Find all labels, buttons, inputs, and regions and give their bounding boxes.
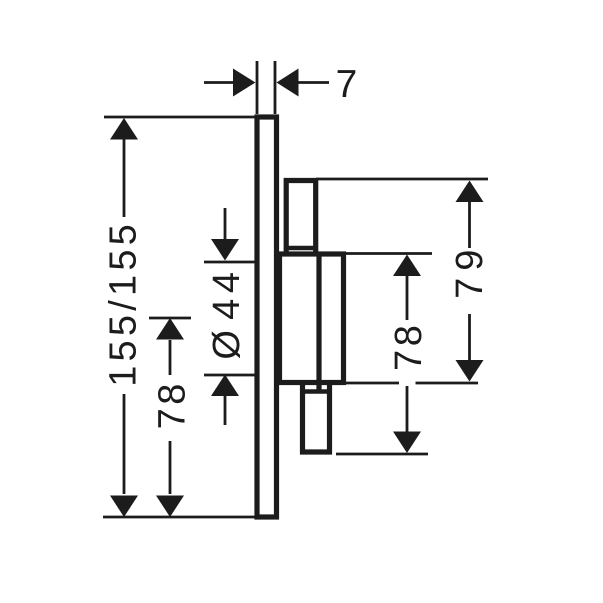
dim d44 down arrowhead (211, 239, 239, 261)
dim d44 upper shaft (224, 208, 227, 239)
svg-text:79: 79 (449, 243, 491, 299)
dimension 78 left (151, 318, 193, 517)
dim 78L upper shaft (169, 340, 172, 375)
dim 78R top arrowhead (393, 255, 421, 277)
extension line 78-right top (346, 252, 432, 255)
dim d44 up arrowhead (211, 375, 239, 397)
svg-text:78: 78 (151, 380, 193, 429)
extension line 79 top (316, 178, 488, 181)
dim 7 left arrowhead (233, 69, 256, 97)
dim 155 lower shaft (123, 394, 126, 494)
dim 155 bottom arrowhead (110, 496, 138, 518)
dim 79 upper shaft (468, 202, 471, 249)
dimension 7 (plate thickness) (204, 63, 357, 106)
dim 7 right shaft (298, 81, 329, 84)
svg-text:44: 44 (206, 266, 248, 319)
dim 78L bottom arrowhead (156, 496, 184, 518)
wall plate outline (257, 117, 277, 517)
extension line 79 bottom (two segments) (344, 382, 399, 385)
dimension 155/155 (plate height) (103, 118, 145, 517)
extension line 78-right bottom (336, 453, 428, 456)
dimension d44 (206, 208, 248, 425)
extension line 78-left top (149, 317, 191, 320)
extension line d44 bottom (204, 374, 258, 377)
dim 79 bottom arrowhead (456, 360, 484, 382)
valve middle body (280, 254, 344, 383)
dim 79 lower shaft (468, 314, 471, 360)
bottom spigot step line (303, 389, 330, 393)
extension line 7 left vertical (256, 61, 259, 114)
dimension 79 right (449, 181, 491, 382)
dim 78L top arrowhead (156, 318, 184, 340)
valve bottom spigot (303, 383, 330, 453)
valve top spigot (286, 181, 316, 255)
dim 155 top arrowhead (110, 118, 138, 140)
svg-text:7: 7 (336, 63, 358, 106)
dim 79 top arrowhead (456, 181, 484, 203)
svg-text:155/155: 155/155 (103, 220, 145, 387)
dim 155 upper shaft (123, 139, 126, 217)
svg-text:78: 78 (388, 322, 430, 371)
dim 78L lower shaft (169, 441, 172, 494)
dim 7 right arrowhead (277, 69, 299, 97)
top spigot step line (284, 246, 318, 250)
dim 78R bottom arrowhead (393, 432, 421, 454)
dim d44 lower shaft (224, 395, 227, 425)
extension line top left (155/155 top) (104, 116, 257, 119)
dimension 78 right (388, 255, 430, 454)
extension line 7 right vertical (274, 61, 277, 114)
dim 7 left shaft (204, 81, 234, 84)
svg-text:Ø: Ø (206, 330, 248, 360)
extension line d44 top (204, 261, 258, 264)
dim 78R lower shaft (406, 386, 409, 432)
extension line bottom left (155/155 bottom) (103, 516, 257, 519)
dim 78R upper shaft (406, 276, 409, 321)
middle body inner edge (316, 254, 321, 392)
